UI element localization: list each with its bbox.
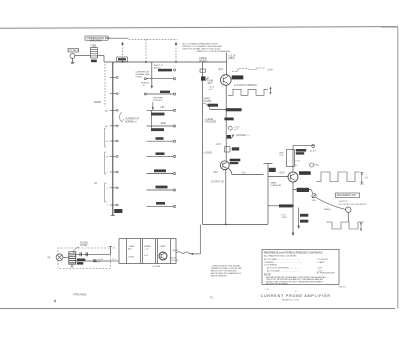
svg-text:REFERENCE and INTERNAL READING: REFERENCE and INTERNAL READINGS VOM READ… [264, 252, 323, 255]
svg-text:⊥△: ⊥△ [265, 286, 270, 290]
svg-text:AC VOLTAGE · — · — · — · — ·: AC VOLTAGE · — · — · — · — · — [267, 270, 300, 273]
svg-text:AT FREQUENCIES: AT FREQUENCIES [317, 272, 335, 275]
svg-text:CABLE: CABLE [324, 208, 332, 211]
label box probe input [68, 48, 79, 52]
svg-text:11.5k: 11.5k [161, 123, 167, 125]
delay line divider 2 [140, 239, 142, 264]
arrowhead A [121, 42, 124, 45]
svg-text:1/2W: 1/2W [282, 217, 288, 219]
test point TP1 [228, 126, 232, 130]
resistor R68 [300, 220, 308, 223]
transistor Q4 [159, 252, 167, 260]
wire J3 to T2 [63, 256, 69, 258]
switch group bracket 1 [105, 128, 107, 147]
rung wire 9 [147, 205, 174, 207]
resistor R8 [151, 128, 164, 131]
svg-text:3 mV: 3 mV [267, 69, 273, 71]
svg-text:2.7k: 2.7k [280, 155, 285, 157]
switch bus wire [112, 62, 114, 216]
inductor L5 [264, 163, 273, 165]
squiggle wire to main [176, 252, 192, 254]
resistor R10 [156, 152, 165, 155]
wire supply above Q1 [226, 53, 228, 75]
svg-text:OUTPUT DC: OUTPUT DC [211, 181, 224, 183]
transformer T1 value label [91, 60, 97, 63]
switch contact 9 [110, 204, 117, 206]
boxed label recurrent [335, 193, 359, 197]
connector J2 [346, 207, 351, 212]
svg-text:1: 1 [107, 205, 109, 207]
transistor Q1 [221, 75, 232, 86]
svg-text:AC VOLTAGE · — · — · — · — ·: AC VOLTAGE · — · — · — · — · — · — [264, 258, 301, 261]
svg-text:+20V: +20V [317, 268, 322, 270]
svg-text:CURRENT · — · — · — · — · — ·: CURRENT · — · — · — · — · — · — · — [264, 262, 302, 264]
svg-text:ATTEN: ATTEN [80, 244, 88, 247]
Q2 name plate [230, 159, 241, 162]
wire to Q3 base [268, 176, 288, 178]
dashed linkage vertical B [145, 39, 147, 61]
svg-text:RECURRENT ADJ: RECURRENT ADJ [337, 194, 356, 197]
svg-text:AC VOLTS CENTERED · — · — · —: AC VOLTS CENTERED · — · — · — [267, 267, 301, 270]
svg-text:2: 2 [107, 188, 109, 190]
svg-text:PARTS MARKED: PARTS MARKED [211, 274, 227, 277]
rung wire 5 [147, 140, 174, 142]
divider stub wire [298, 208, 300, 227]
wire trigger row [210, 109, 242, 111]
svg-text:μF: μF [98, 262, 101, 264]
svg-text:-0.6V: -0.6V [279, 172, 285, 174]
rung wire 3 [147, 109, 174, 111]
svg-text:OHMS/VOLT VOM FOR READING.: OHMS/VOLT VOM FOR READING. [196, 50, 231, 53]
svg-text:WITH NO SIGNAL INPUT. USE 20,0: WITH NO SIGNAL INPUT. USE 20,000 [183, 48, 222, 51]
curved wire to jack [316, 198, 346, 210]
svg-text:CURRENT PROBE AMPLIFIER: CURRENT PROBE AMPLIFIER [261, 294, 331, 298]
rung wire 7 [147, 173, 174, 175]
svg-text:FORMS AT: FORMS AT [271, 184, 283, 187]
svg-text:+12.5V: +12.5V [309, 150, 317, 152]
wire transformer to bus corner [98, 55, 105, 57]
svg-text:Q24: Q24 [219, 69, 224, 71]
resistor R5 [158, 69, 172, 72]
svg-text:0.15: 0.15 [144, 255, 149, 257]
W3 measure arrow [361, 173, 363, 183]
capacitor C31 [85, 252, 87, 256]
resistor R17 [226, 108, 242, 111]
rung wire 2 [147, 93, 174, 95]
svg-text:BNC: BNC [315, 165, 320, 167]
connector J1 [70, 54, 75, 59]
svg-text:-0.5: -0.5 [294, 165, 299, 167]
svg-text:-0.6V: -0.6V [212, 172, 218, 174]
svg-text:1.5k: 1.5k [160, 107, 165, 109]
svg-text:TYPE P6042: TYPE P6042 [73, 294, 87, 297]
capacitor C10 box [200, 69, 206, 72]
svg-text:COMPENSATING BOX: COMPENSATING BOX [86, 37, 110, 40]
wire stub with arrow [151, 62, 153, 87]
waveform W1 [232, 68, 265, 72]
svg-text:J5: J5 [112, 248, 115, 250]
svg-text:+2 AMP: +2 AMP [317, 261, 325, 264]
svg-text:SHIELD: SHIELD [199, 60, 208, 62]
svg-text:(TRIGGER): (TRIGGER) [205, 121, 217, 123]
svg-text:-0.15/3A: -0.15/3A [152, 265, 160, 268]
wire below Q2 [225, 170, 227, 225]
wire bottom return [203, 223, 269, 225]
Q3 name plate [299, 171, 311, 175]
wire Q3 emitter down [292, 182, 294, 233]
output row wire [293, 189, 311, 191]
waveform W3 [316, 172, 360, 182]
switch group bracket 3 [105, 183, 107, 202]
svg-text:100: 100 [105, 110, 109, 112]
rung wire 8 [147, 189, 174, 191]
potentiometer R25 [227, 135, 231, 139]
dashed linkage horizontal [129, 38, 178, 40]
resistor R6 value [160, 91, 170, 93]
switch contact 5 [110, 140, 117, 142]
feedback label plate [296, 149, 306, 152]
termination plate [77, 259, 85, 262]
svg-text:RESPECT TO CHASSIS GROUND AND: RESPECT TO CHASSIS GROUND AND [183, 45, 223, 48]
svg-text:4X: 4X [94, 183, 97, 185]
callout brace [120, 112, 122, 122]
svg-text:MODELS 1, 2 & B: MODELS 1, 2 & B [282, 300, 299, 302]
resistor R13 [156, 202, 165, 205]
terminal arrow [191, 253, 194, 255]
svg-text:→ MODE: → MODE [91, 102, 101, 104]
rung wire 4 [147, 125, 174, 127]
resistor R26 [225, 147, 230, 152]
waveform W2 [228, 89, 268, 95]
svg-text:CURRENT AT: CURRENT AT [125, 118, 140, 121]
wire connector to transformer [75, 55, 90, 57]
wire return to bus [193, 253, 200, 255]
svg-text:4: 4 [54, 298, 57, 304]
capacitor C32 [93, 259, 97, 261]
W4 arrow [360, 223, 362, 231]
svg-text:TU: TU [210, 297, 213, 300]
resistor R66 [279, 204, 293, 207]
transistor Q2 [220, 161, 229, 170]
svg-text:ADJ: ADJ [128, 247, 132, 250]
connector J3 [56, 254, 63, 261]
svg-text:S/N 101: S/N 101 [339, 286, 347, 288]
dashed linkage vertical A [122, 45, 124, 62]
capacitor C20 [224, 118, 233, 121]
switch group bracket 2 [105, 152, 107, 174]
test point TP2 [310, 163, 314, 167]
svg-text:<TRIG: <TRIG [128, 256, 135, 259]
wire stub trigger arrow [152, 102, 154, 109]
ladder chain wire [150, 110, 152, 131]
ground stub [71, 264, 73, 267]
wire main top bus [104, 61, 227, 63]
shield dashed box [58, 248, 111, 268]
transistor Q3 [288, 172, 298, 182]
svg-text:+GAIN: +GAIN [159, 245, 166, 248]
svg-text:+5.3V: +5.3V [294, 161, 300, 163]
top wire with caps [76, 253, 111, 255]
wire Q2 emitter to right [228, 168, 263, 174]
resistor R1 on bus [117, 57, 128, 62]
switch contact 3 [110, 109, 117, 111]
dashed linkage vertical to switch [104, 64, 106, 107]
svg-text:R: R [143, 85, 145, 87]
wire from label box [108, 37, 129, 39]
svg-text:(TRIG): (TRIG) [136, 77, 143, 79]
sheet bottom edge [0, 308, 395, 310]
svg-text:ADJ: ADJ [208, 82, 212, 85]
svg-text:+ LEVEL: + LEVEL [203, 153, 213, 155]
sheet right edge [397, 27, 399, 309]
resistor R7 [151, 113, 165, 116]
svg-text:—10: —10 [144, 248, 149, 250]
sheet top edge [0, 27, 398, 29]
switch contact 8 [110, 187, 117, 189]
resistor R12 [156, 186, 168, 189]
svg-text:CLAMP: CLAMP [204, 100, 212, 103]
svg-text:PROBE IN: PROBE IN [69, 50, 80, 52]
svg-text:PICKOFF: PICKOFF [153, 100, 163, 102]
switch contact 1 [110, 77, 117, 79]
wire Q3 collector up [292, 146, 294, 172]
svg-text:1 V: 1 V [365, 178, 369, 180]
title block box [262, 249, 339, 284]
resistor R11 [154, 169, 166, 172]
svg-text:P6: P6 [48, 258, 52, 260]
waveform W4 [326, 222, 364, 229]
transformer T1 [91, 48, 98, 59]
svg-text:GAIN ADJ —◦: GAIN ADJ —◦ [236, 134, 250, 137]
svg-text:TO J: TO J [112, 259, 116, 261]
switch contact 2 [110, 93, 117, 95]
resistor R16 [208, 104, 218, 107]
label box compensating coil [85, 36, 108, 40]
svg-text:+2V AC/DIV: +2V AC/DIV [317, 258, 329, 261]
second wire [76, 260, 111, 262]
dashed linkage vertical C [175, 45, 177, 62]
junction dots on bus [122, 61, 124, 63]
svg-text:+2.5 VOLTS NOMINAL: +2.5 VOLTS NOMINAL [234, 84, 258, 87]
svg-text:TO OSCILLOSCOPE INPUT: TO OSCILLOSCOPE INPUT [339, 204, 368, 206]
capacitor C30 [79, 252, 81, 256]
svg-text:±0.1: ±0.1 [234, 129, 239, 131]
resistor R67 [300, 214, 308, 217]
svg-text:ALL VOLTAGES MEASURED WITH: ALL VOLTAGES MEASURED WITH [183, 42, 219, 45]
delay line divider 3 [142, 239, 144, 264]
wire Q1 emitter chain [225, 85, 227, 161]
svg-text:-2.2V: -2.2V [216, 144, 222, 146]
svg-text:AS ELECTRICAL PARTS: AS ELECTRICAL PARTS [266, 282, 289, 285]
svg-text:(DEC): (DEC) [228, 58, 235, 60]
svg-text:0.15/3W: 0.15/3W [171, 260, 179, 262]
ground arrow [292, 233, 295, 236]
arrowhead C [175, 42, 178, 45]
delay line divider 1 [126, 239, 128, 264]
switch contact 4 [110, 125, 117, 127]
switch contact 6 [110, 156, 117, 158]
svg-text:VOLT RANGE: VOLT RANGE [264, 264, 278, 267]
resistor R9 [156, 137, 164, 140]
wire return vertical [267, 177, 269, 225]
wire feedback top [293, 145, 314, 147]
delay line divider 4 [155, 239, 157, 264]
svg-text:50Ω: 50Ω [312, 200, 316, 202]
svg-text:5: 5 [107, 172, 109, 174]
delay line divider 6 [170, 239, 172, 264]
callout arc [74, 247, 80, 252]
svg-text:⊥: ⊥ [295, 289, 298, 293]
svg-text:NORMAL X: NORMAL X [125, 120, 137, 123]
supply tap [312, 145, 315, 148]
delay line divider 5 [157, 239, 159, 264]
svg-text:L1 R2: L1 R2 [90, 44, 97, 46]
W2 arrow [270, 87, 272, 94]
switch contact output [312, 194, 316, 198]
resistor R64 feedback [287, 150, 295, 167]
trigger takeoff arc [203, 103, 210, 110]
rung wire 1 [147, 78, 174, 80]
resistor R70 [297, 188, 309, 192]
svg-text:AMPLIFIER: AMPLIFIER [90, 40, 102, 43]
switch linkage dashed lines [105, 39, 178, 106]
terminal riser [110, 246, 112, 254]
svg-text:ALL READINGS IN AC VOLTAGES: ALL READINGS IN AC VOLTAGES [264, 254, 297, 257]
ground [72, 58, 74, 62]
Q1 name plate [232, 75, 244, 79]
svg-text:10: 10 [106, 157, 109, 159]
wire gain branch [202, 62, 204, 224]
switch contact 7 [110, 171, 117, 173]
svg-text:20: 20 [106, 141, 109, 143]
svg-text:0.5≈: 0.5≈ [242, 172, 247, 175]
potentiometer R15 [201, 76, 205, 80]
wire to delay line [111, 260, 120, 262]
svg-text:50: 50 [106, 126, 109, 128]
transformer T2 [69, 252, 76, 264]
switch bottom terminal R20 [114, 209, 122, 213]
rung wire 6 [147, 155, 174, 157]
delay line box [119, 239, 176, 264]
